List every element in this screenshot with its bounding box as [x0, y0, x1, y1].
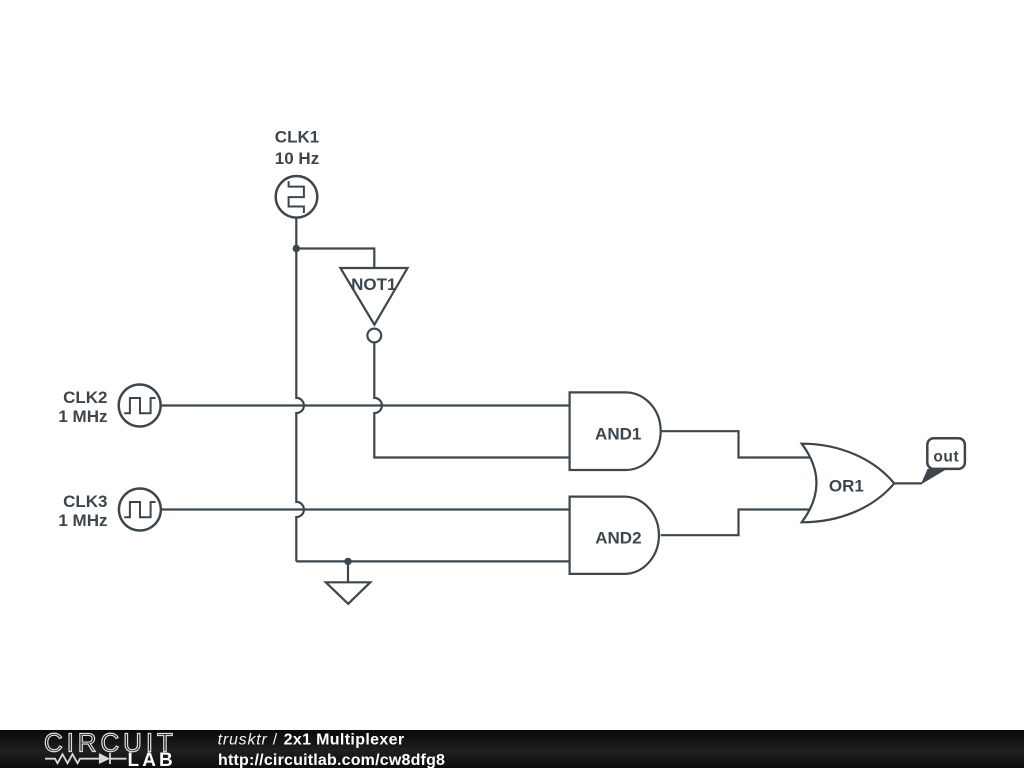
label CLK2 1 MHz — [58, 388, 107, 426]
wire vertical bus from junction A to ground rail (hops over CLK2 and CLK3 wires) — [296, 249, 304, 562]
svg-text:1 MHz: 1 MHz — [58, 407, 107, 426]
flag out — [922, 438, 965, 483]
CircuitLab logo diode symbol — [99, 753, 110, 764]
node ground junction — [344, 558, 351, 565]
svg-text:AND1: AND1 — [595, 424, 641, 443]
svg-text:trusktr: trusktr — [218, 731, 268, 748]
svg-text:2x1 Multiplexer: 2x1 Multiplexer — [284, 731, 405, 748]
svg-text:CLK3: CLK3 — [63, 492, 107, 511]
clock source CLK3 — [119, 489, 161, 531]
CircuitLab logo resistor symbol — [45, 754, 99, 763]
svg-text:LAB: LAB — [128, 750, 176, 768]
clock source CLK1 — [276, 176, 318, 218]
svg-text:/: / — [273, 731, 278, 748]
node junction A — [293, 245, 300, 252]
svg-text:CLK2: CLK2 — [63, 388, 107, 407]
AND gate AND2 — [570, 497, 659, 574]
wire AND1 output to OR1 upper input — [661, 431, 812, 457]
ground symbol — [326, 561, 371, 603]
wire CLK1 output to junction A — [295, 218, 297, 249]
clock source CLK2 — [119, 385, 161, 427]
svg-text:CLK1: CLK1 — [275, 128, 319, 147]
svg-text:10 Hz: 10 Hz — [275, 149, 319, 168]
label CLK3 1 MHz — [58, 492, 107, 530]
svg-text:NOT1: NOT1 — [351, 275, 396, 294]
wire branch junction A to NOT1 input — [296, 249, 374, 269]
wire OR1 output to out flag — [894, 482, 922, 484]
wire AND2 output to OR1 lower input — [661, 510, 812, 536]
wire CLK2 to AND1 upper input — [161, 404, 570, 406]
wire ground rail horizontal to AND2 lower input — [296, 560, 569, 562]
label CLK1 10 Hz — [275, 128, 319, 169]
svg-text:1 MHz: 1 MHz — [58, 511, 107, 530]
svg-text:out: out — [933, 449, 959, 466]
wire CLK3 to AND2 upper input — [161, 508, 570, 510]
inverter NOT1 — [340, 268, 407, 342]
svg-text:OR1: OR1 — [829, 477, 864, 496]
AND gate AND1 — [570, 392, 661, 470]
wire NOT1 output to AND1 lower input (hops over CLK2 wire) — [374, 342, 569, 457]
OR gate OR1 — [802, 444, 895, 523]
svg-text:AND2: AND2 — [595, 528, 641, 547]
svg-text:http://circuitlab.com/cw8dfg8: http://circuitlab.com/cw8dfg8 — [218, 752, 445, 768]
footer bar — [0, 730, 1024, 768]
